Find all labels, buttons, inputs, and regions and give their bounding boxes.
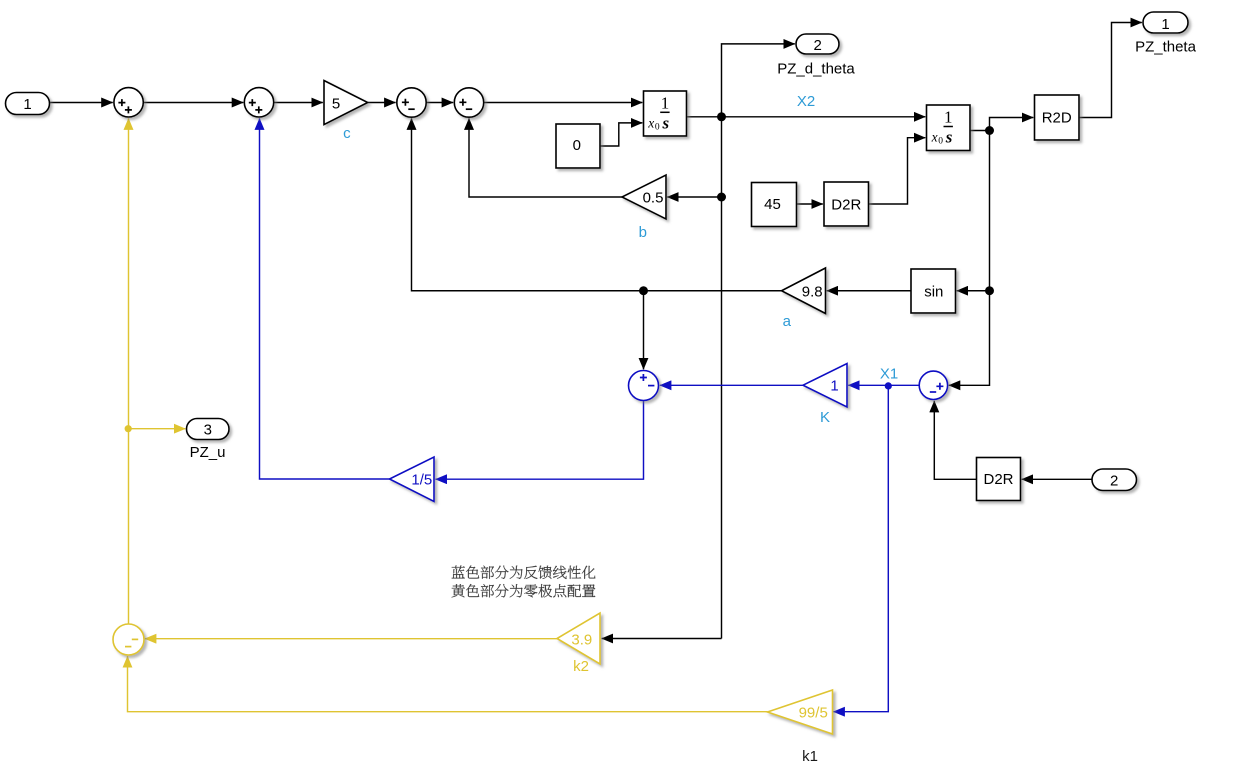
svg-text:1: 1	[944, 108, 953, 127]
svg-text:0: 0	[938, 137, 943, 147]
svg-text:5: 5	[332, 95, 340, 112]
svg-text:9.8: 9.8	[802, 284, 823, 301]
svg-text:PZ_u: PZ_u	[190, 444, 226, 461]
svg-text:99/5: 99/5	[799, 705, 828, 722]
svg-text:X2: X2	[797, 93, 815, 110]
svg-text:1/5: 1/5	[411, 472, 432, 489]
svg-text:k2: k2	[573, 658, 589, 675]
svg-text:PZ_d_theta: PZ_d_theta	[777, 61, 855, 78]
svg-text:b: b	[639, 224, 647, 241]
svg-text:c: c	[343, 125, 351, 142]
svg-text:D2R: D2R	[983, 471, 1013, 488]
svg-text:2: 2	[1110, 472, 1118, 489]
svg-text:s: s	[945, 128, 953, 147]
svg-text:a: a	[783, 313, 792, 330]
svg-text:PZ_theta: PZ_theta	[1135, 39, 1197, 56]
svg-text:X1: X1	[880, 365, 898, 382]
svg-text:sin: sin	[924, 284, 943, 301]
svg-text:3: 3	[204, 422, 212, 439]
svg-text:k1: k1	[802, 748, 818, 765]
svg-text:1: 1	[1161, 16, 1169, 33]
svg-text:s: s	[661, 113, 669, 132]
svg-text:1: 1	[23, 96, 31, 113]
svg-text:1: 1	[661, 94, 670, 113]
svg-text:x: x	[931, 130, 938, 145]
svg-text:x: x	[647, 115, 654, 130]
svg-text:D2R: D2R	[831, 196, 861, 213]
svg-text:0: 0	[573, 137, 581, 154]
svg-text:2: 2	[814, 37, 822, 54]
svg-text:1: 1	[830, 377, 838, 394]
svg-text:R2D: R2D	[1042, 110, 1072, 127]
svg-text:3.9: 3.9	[571, 632, 592, 649]
svg-text:0: 0	[655, 122, 660, 132]
svg-text:K: K	[820, 409, 830, 426]
svg-text:0.5: 0.5	[643, 189, 664, 206]
svg-text:45: 45	[764, 196, 781, 213]
